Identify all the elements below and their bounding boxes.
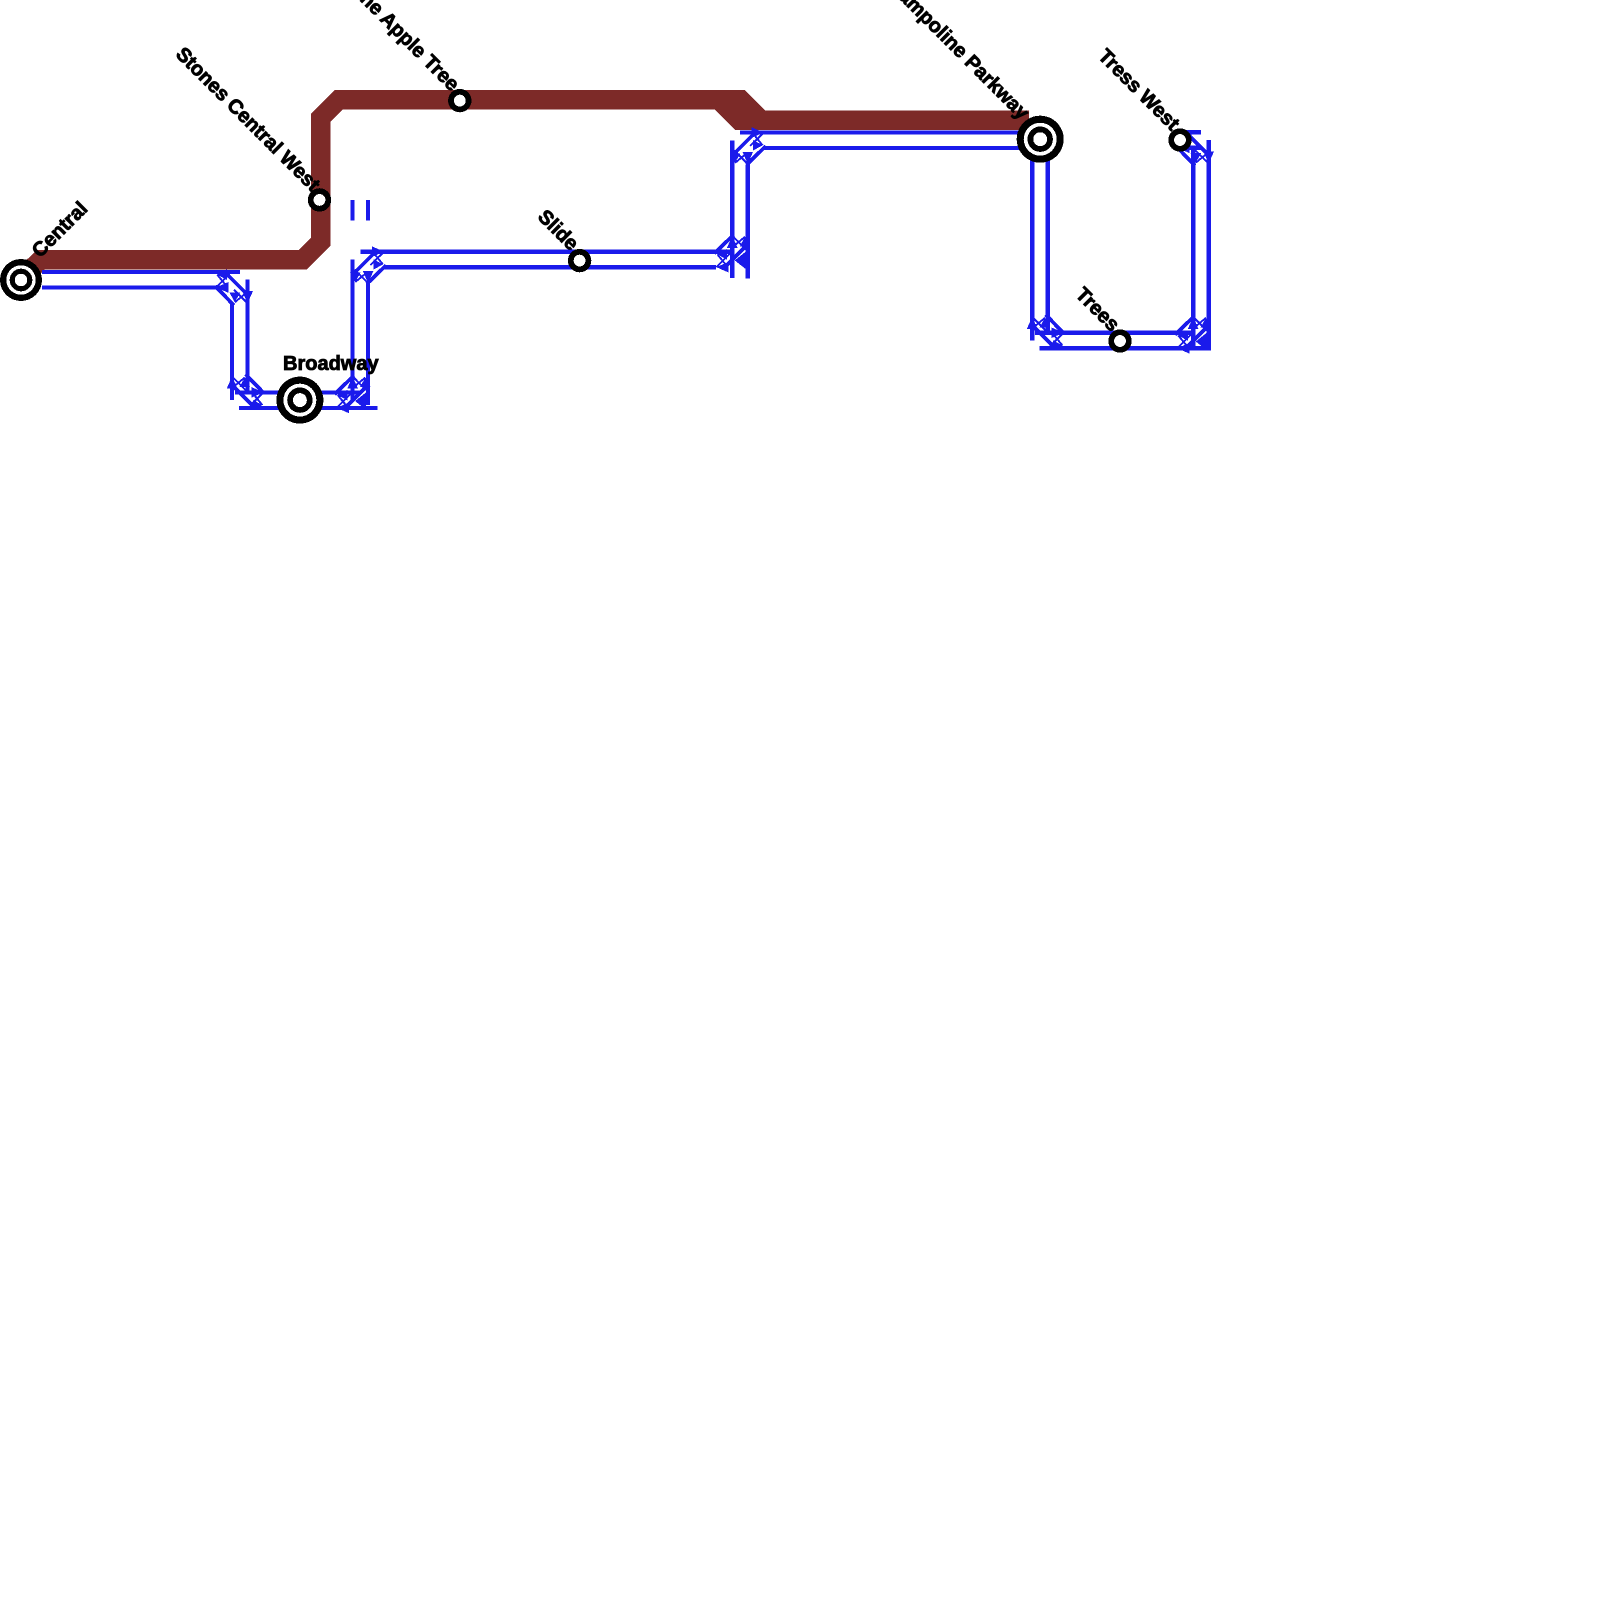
- svg-text:Broadway: Broadway: [283, 353, 379, 375]
